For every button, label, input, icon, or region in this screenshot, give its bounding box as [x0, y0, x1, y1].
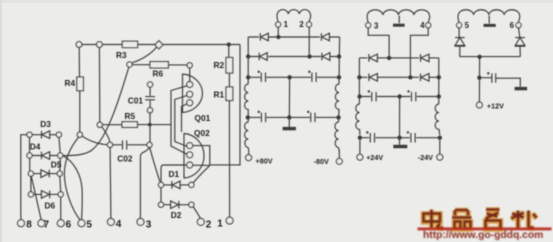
svg-text:D4: D4	[30, 141, 41, 151]
node circle C02 right	[147, 142, 152, 147]
terminal 6	[57, 220, 64, 227]
transistor Q02 pin3	[187, 162, 193, 168]
ground block3	[515, 87, 528, 90]
block1 right bus coil lower	[335, 122, 339, 158]
node +24V terminal	[357, 154, 363, 160]
resistor R1	[226, 87, 233, 101]
resistor R6	[150, 62, 168, 68]
svg-text:R2: R2	[214, 60, 225, 70]
node +12V terminal	[476, 102, 482, 108]
node circle D4 right	[58, 153, 63, 158]
diode block1 row2 right	[322, 53, 330, 61]
svg-text:C02: C02	[117, 153, 133, 163]
ground block1	[283, 127, 296, 130]
block1 row2 wire	[248, 56, 339, 58]
wire R5 row	[103, 124, 171, 126]
wire right column D3-D6 to terminal 6	[59, 138, 61, 220]
junction dot block3	[477, 55, 481, 59]
block1 right bus coil upper	[335, 84, 339, 122]
node diamond terminal	[155, 41, 163, 49]
node circle bottom of wire A	[77, 132, 82, 137]
junction dots rowB	[357, 75, 361, 79]
block1 left bus coil upper	[245, 84, 249, 122]
svg-text:3: 3	[374, 21, 379, 30]
wire curve D4-right to terminal 5	[63, 156, 82, 220]
junction dot block2 rowA center	[387, 56, 391, 60]
wire Q02 pin3 to D1 left	[161, 165, 187, 182]
wire curve to terminal 5 from wireA-bottom	[64, 137, 80, 220]
resistor R3	[122, 41, 137, 47]
terminal 6 of winding	[516, 23, 521, 28]
diode block1 row2 left	[259, 53, 267, 61]
diode block2 rowA left	[369, 54, 378, 62]
wire T6 down	[519, 28, 520, 38]
node -24V terminal	[437, 154, 443, 160]
node circle R5 row left	[97, 122, 102, 127]
svg-text:D5: D5	[51, 160, 62, 170]
node terminal circle left-top B	[97, 42, 103, 48]
junction dot R2 top	[227, 42, 231, 46]
wire below left diode	[459, 47, 461, 57]
wire Q01 pin1 to Q02 pin2	[171, 86, 187, 155]
terminal 3 of winding	[366, 23, 371, 28]
terminal 5 of winding	[457, 23, 462, 28]
diode block2 rowB left	[369, 74, 378, 82]
diode block1 row1 left	[260, 33, 268, 41]
junction dots row3	[246, 75, 250, 79]
node circle D1 left	[158, 182, 163, 187]
junction dots row2	[246, 54, 250, 58]
junction dot block3 cap	[477, 76, 481, 80]
terminal 4	[107, 218, 114, 225]
wire R6 circle down to Q01 pin1	[189, 68, 191, 81]
terminal 3	[137, 218, 144, 225]
block1 row1 wire	[248, 36, 339, 38]
wire Q01 pin3 stub	[182, 104, 188, 132]
block2 left bus lower	[359, 140, 361, 154]
wire R6 row	[132, 64, 187, 66]
transformer winding 1-2	[277, 10, 311, 22]
svg-text:8: 8	[26, 220, 32, 231]
block1 left bus coil lower	[245, 122, 249, 155]
terminal 1	[226, 217, 233, 224]
block3 bottom wire	[459, 56, 520, 58]
ground winding34 center tap	[398, 16, 400, 24]
capacitor block2 rowD left	[366, 131, 374, 142]
wire D2-right to terminal 2	[193, 207, 200, 219]
diode D3	[32, 131, 56, 139]
junction dot T2 row2	[307, 54, 311, 58]
capacitor block1 row4 left	[258, 111, 266, 123]
diode D5	[34, 170, 57, 178]
wire block3 drop	[478, 57, 480, 102]
terminal 1 of winding	[276, 22, 281, 27]
svg-text:2: 2	[299, 20, 304, 29]
svg-text:5: 5	[465, 21, 470, 30]
wire D1-D2 left column	[160, 188, 162, 202]
transistor Q01 pin1	[187, 82, 193, 88]
watermark 电器资料	[418, 210, 552, 242]
wire C02-right to D1 left curve	[150, 148, 160, 182]
terminal 2	[197, 218, 204, 225]
wire D5-left slant to terminal 7	[31, 176, 41, 219]
svg-text:4: 4	[420, 21, 425, 30]
wire T5 down	[458, 28, 460, 38]
svg-text:C01: C01	[128, 96, 144, 106]
svg-text:R4: R4	[65, 78, 76, 88]
node circle D3 right	[56, 132, 61, 137]
transistor Q02 pin2	[187, 152, 193, 158]
terminal 8	[18, 220, 25, 227]
diode D4	[32, 152, 57, 160]
wire top rail	[82, 44, 240, 46]
svg-text:4: 4	[116, 219, 122, 230]
wire curve wireA-bottom to C02 left	[82, 136, 107, 145]
node circle C01 bottom	[147, 108, 152, 113]
wire R2 to R1	[228, 73, 230, 87]
terminal 4 of winding	[426, 23, 431, 28]
transistor Q02 case	[184, 133, 204, 179]
junction dots rowC	[357, 94, 361, 98]
capacitor C02	[113, 140, 147, 149]
capacitor block1 row3 left	[258, 71, 266, 83]
junction dots rowD	[358, 136, 362, 140]
wire Q01 pin2 to Q02 pin1	[175, 96, 187, 147]
svg-text:1: 1	[284, 20, 289, 29]
block1 row3 wire	[248, 76, 339, 78]
resistor R5	[122, 122, 137, 128]
block1 left bus	[247, 37, 249, 84]
diode block2 rowB right	[421, 74, 430, 82]
junction dot block2 rowB center	[408, 75, 412, 79]
transistor Q02 pin1	[187, 143, 193, 149]
transistor Q01 pin2	[187, 91, 193, 97]
svg-text:7: 7	[44, 220, 50, 231]
resistor R2	[226, 58, 233, 74]
diode network left bracket to terminal 8	[21, 135, 27, 220]
bracket Q02 pins right bus	[193, 146, 210, 166]
node circle R6 row right / Q01 top	[187, 63, 192, 68]
wire curve R5-left to C02-left	[102, 127, 110, 142]
terminal 7	[38, 220, 45, 227]
block2 rowD wire	[360, 137, 440, 139]
svg-text:6: 6	[66, 220, 72, 231]
block1 right bus	[338, 37, 341, 84]
diode D6	[34, 191, 58, 199]
wire diamond to R6 left curve	[132, 47, 156, 63]
transformer winding 3-4	[367, 10, 430, 23]
wire D1-right up to bracket corner	[193, 166, 209, 183]
watermark underline	[418, 227, 552, 230]
junction dot R5 x C01	[148, 123, 152, 127]
node circle D2 right	[189, 202, 194, 207]
svg-text:D1: D1	[169, 169, 180, 179]
diode D1	[164, 181, 189, 189]
junction dots row4	[246, 115, 250, 119]
wire C01 bottom to C02 right	[149, 113, 151, 142]
block2 left bus coil	[356, 104, 360, 135]
svg-text:-80V: -80V	[314, 157, 329, 166]
block2 rowA wire	[359, 57, 438, 59]
svg-text:R1: R1	[214, 89, 225, 99]
capacitor C01	[145, 87, 155, 107]
node +80V terminal	[246, 155, 252, 161]
ground winding56 center tap	[488, 15, 490, 23]
block2 right bus	[438, 58, 440, 104]
block2 rowC wire	[360, 96, 439, 98]
node circle D6 right	[58, 192, 63, 197]
node circle D5 left	[28, 171, 33, 176]
svg-text:D2: D2	[171, 210, 182, 220]
svg-text:+12V: +12V	[487, 102, 504, 111]
capacitor block1 row4 right	[307, 111, 315, 123]
svg-text:R6: R6	[153, 69, 164, 79]
svg-text:http://www.go-gddq.com: http://www.go-gddq.com	[423, 230, 543, 241]
svg-text:3: 3	[146, 219, 152, 230]
diode block3 right	[515, 38, 526, 47]
svg-text:-24V: -24V	[418, 153, 433, 162]
wire rail corner down to D1 bracket	[210, 45, 240, 165]
capacitor block3	[482, 72, 521, 87]
svg-text:2: 2	[206, 219, 212, 230]
wire B vertical	[98, 47, 100, 122]
wire A vertical through R4	[78, 47, 81, 132]
transistor Q01 pin3	[187, 100, 193, 106]
diode D2	[164, 201, 189, 209]
wire T4 jog down to rowB	[410, 28, 428, 75]
svg-text:D3: D3	[40, 119, 51, 129]
wire R1 down to terminal 1	[228, 101, 230, 218]
node circle C02 left	[107, 142, 112, 147]
wire left column D3-D6	[30, 138, 31, 192]
node circle D1 right	[189, 182, 194, 187]
node -80V terminal	[336, 158, 342, 164]
terminal 2 of winding	[306, 22, 311, 27]
svg-text:+80V: +80V	[256, 157, 273, 166]
svg-text:+24V: +24V	[366, 153, 383, 162]
capacitor block2 rowC right	[407, 90, 416, 101]
svg-text:R5: R5	[125, 111, 136, 121]
wire curve R6-left down to D4 right	[63, 67, 129, 155]
svg-text:Q01: Q01	[195, 113, 211, 123]
ground block2	[393, 145, 407, 148]
node circle D2 left	[158, 202, 163, 207]
capacitor block1 row3 right	[308, 71, 316, 83]
wire below right diode	[519, 47, 521, 57]
diode block2 rowA right	[421, 54, 430, 62]
svg-text:R3: R3	[116, 50, 127, 60]
node terminal circle left-top A	[76, 42, 82, 48]
junction dot T1 row1	[276, 35, 280, 39]
wire C02-right down to terminal 3	[140, 148, 149, 219]
node circle D5 right	[57, 171, 62, 176]
wire T1 down to row1	[277, 27, 279, 35]
block2 left bus	[358, 58, 360, 104]
block1 row4 wire	[248, 116, 339, 118]
node circle D6 left	[28, 192, 33, 197]
wire center drop to ground	[288, 77, 290, 127]
svg-text:1: 1	[217, 219, 223, 230]
transistor Q01 case	[183, 74, 203, 114]
capacitor block2 rowD right	[407, 131, 415, 142]
transformer winding 5-6	[458, 10, 520, 23]
svg-text:6: 6	[510, 21, 515, 30]
node circle D3 left	[27, 132, 32, 137]
block2 rowB wire	[359, 76, 438, 78]
wire block2 center drop	[399, 97, 401, 145]
block2 right bus coil	[435, 104, 440, 135]
node circle C01 top	[147, 82, 152, 87]
diode block3 left	[455, 38, 466, 47]
block2 right bus lower	[439, 140, 441, 154]
wire T2 down to row2	[308, 27, 310, 54]
wire R2 top from rail	[228, 45, 230, 58]
terminal 5	[78, 220, 85, 227]
svg-text:5: 5	[86, 220, 92, 231]
node circle D4 left	[27, 153, 32, 158]
capacitor block2 rowC left	[368, 90, 377, 101]
resistor R4	[77, 77, 84, 91]
svg-text:Q02: Q02	[194, 128, 210, 138]
svg-text:D6: D6	[45, 201, 56, 211]
wire T3 jog down to rowA	[368, 28, 389, 56]
node circle R6 row left	[127, 62, 132, 67]
wire C02-left down to terminal 4	[109, 148, 112, 219]
diode block1 row1 right	[321, 33, 329, 41]
